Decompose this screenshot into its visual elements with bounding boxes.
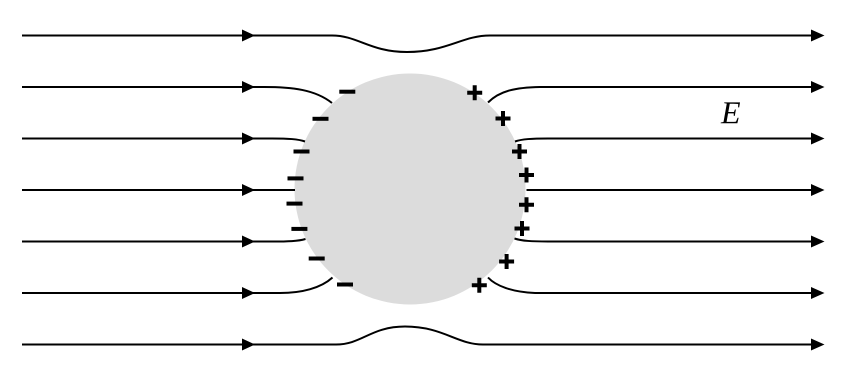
arrow line1 mid <box>242 30 255 42</box>
minus 1 <box>339 90 355 94</box>
plus 3 <box>512 144 527 159</box>
field line 5 right <box>515 239 813 242</box>
field line 2 right <box>488 87 812 103</box>
minus 3 <box>294 150 310 154</box>
arrow line5 mid <box>242 236 255 248</box>
plus 7 <box>499 254 514 269</box>
minus 4 <box>288 176 304 180</box>
minus 2 <box>313 117 329 121</box>
arrow line7 end <box>811 339 825 351</box>
minus 6 <box>291 227 307 231</box>
arrow line2 mid <box>242 81 255 93</box>
field line 6 right <box>488 278 812 294</box>
plus 5 <box>519 197 534 212</box>
arrow line2 end <box>811 81 825 93</box>
field line 2 left <box>22 87 332 103</box>
minus 5 <box>287 202 303 206</box>
arrow line7 mid <box>242 339 255 351</box>
label E <box>721 102 740 123</box>
arrow line1 end <box>811 30 825 42</box>
field line 3 left <box>22 139 305 142</box>
field line 4 left <box>22 189 295 191</box>
minus 8 <box>337 283 353 287</box>
plus 6 <box>515 221 530 236</box>
arrow line6 end <box>811 287 825 299</box>
plus 8 <box>472 278 487 293</box>
arrow line5 end <box>811 236 825 248</box>
arrow line6 mid <box>242 287 255 299</box>
induced negative charges (left) <box>287 90 356 287</box>
plus 1 <box>467 85 482 100</box>
field line 1 (top, dips around sphere) <box>22 36 812 53</box>
arrow line4 mid <box>242 184 255 196</box>
arrow line4 end <box>811 184 825 196</box>
arrow line3 mid <box>242 133 255 145</box>
plus 2 <box>496 111 511 126</box>
field line 4 right <box>527 189 813 191</box>
field line 7 (bottom, bumps over sphere) <box>22 327 812 345</box>
field line 3 right <box>515 139 812 142</box>
plus 4 <box>519 168 534 183</box>
field line 5 left <box>22 239 306 242</box>
minus 7 <box>309 257 325 261</box>
induced positive charges (right) <box>467 85 534 293</box>
field line 6 left <box>22 278 333 294</box>
conducting sphere <box>295 74 526 305</box>
arrow line3 end <box>811 133 825 145</box>
